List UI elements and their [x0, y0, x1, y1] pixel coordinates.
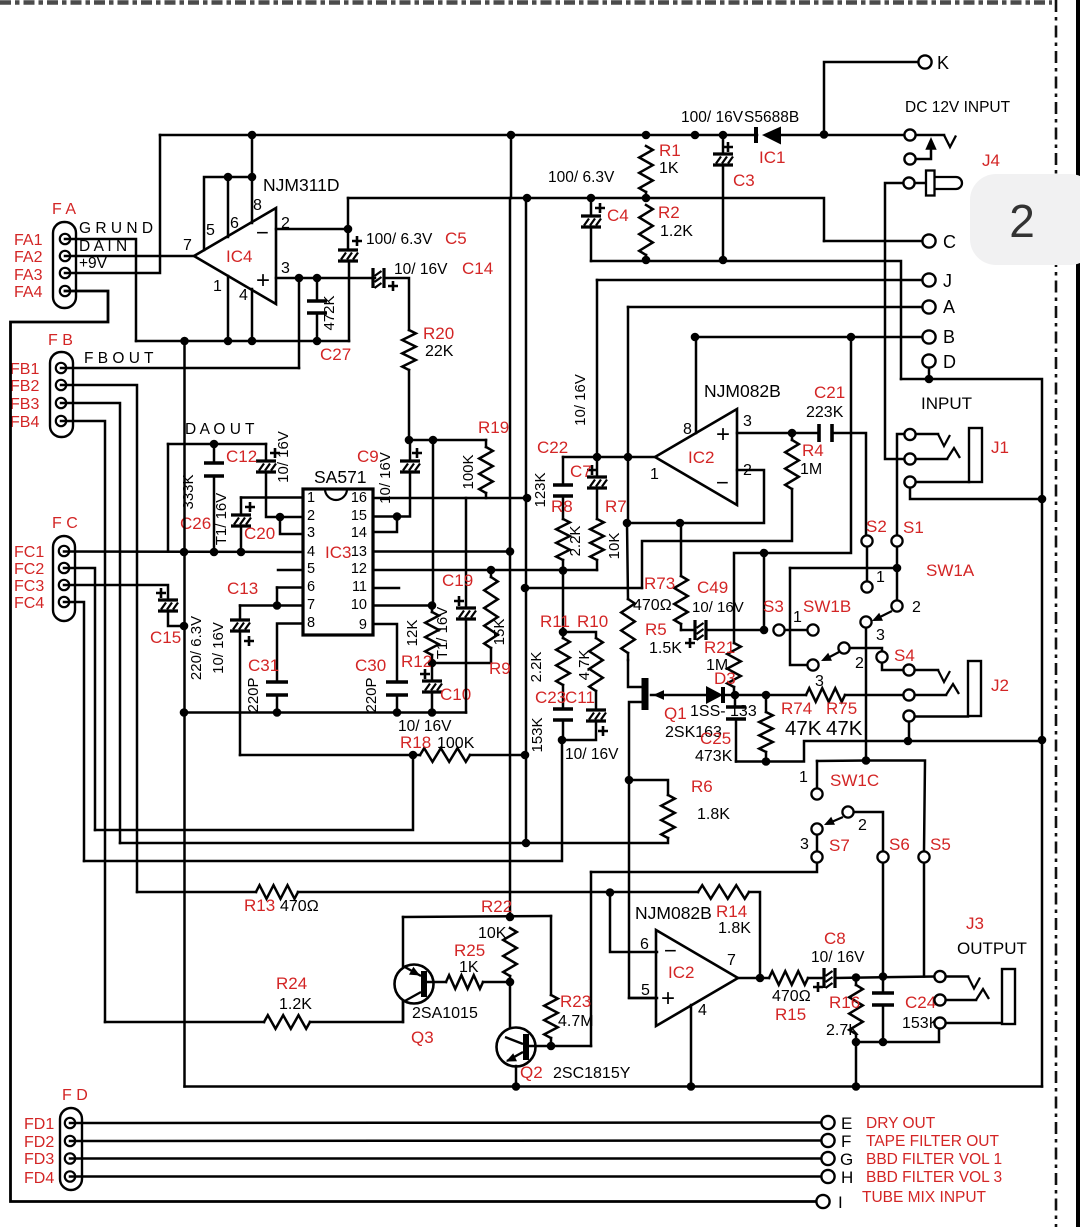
wire S1 S2 contact line to SW1B pole3 — [790, 567, 897, 570]
svg-text:1: 1 — [793, 609, 802, 626]
terminal I TUBE MIX INPUT — [816, 1195, 829, 1208]
wire R24 line — [105, 1021, 264, 1024]
svg-text:R4: R4 — [802, 441, 824, 460]
svg-text:R16: R16 — [829, 993, 860, 1012]
resistor R15 470ohm — [769, 971, 808, 985]
svg-text:C23: C23 — [535, 688, 566, 707]
wire IC2 pin3 to C21 — [737, 432, 817, 435]
wire R2 C3 C4 ground line — [591, 261, 901, 379]
svg-text:F B O U T: F B O U T — [84, 350, 154, 367]
svg-text:IC2: IC2 — [668, 963, 694, 982]
svg-text:8: 8 — [253, 197, 262, 214]
wire FD4 to terminal H — [70, 1175, 822, 1178]
op-amp IC2 NJM082B top — [655, 409, 737, 505]
op-amp IC2 NJM082B bottom — [656, 930, 738, 1026]
wire IC4 pin3 line — [276, 277, 375, 280]
svg-text:10/ 16V: 10/ 16V — [394, 261, 448, 278]
svg-text:333K: 333K — [180, 474, 197, 509]
svg-text:DC 12V INPUT: DC 12V INPUT — [905, 99, 1011, 116]
svg-text:1M: 1M — [800, 461, 822, 478]
wire trunk x526 from 12V line — [525, 198, 528, 843]
svg-text:NJM082B: NJM082B — [635, 903, 712, 923]
wire SA571 pin16 line — [373, 497, 527, 500]
svg-text:12K: 12K — [404, 620, 421, 647]
resistor R23 4.7M — [550, 916, 553, 995]
terminal A — [628, 306, 922, 309]
wire FD2 to terminal F — [70, 1139, 822, 1142]
svg-text:G R U N D: G R U N D — [79, 220, 153, 237]
svg-text:470Ω: 470Ω — [633, 597, 672, 614]
right fold dash-dot line — [1055, 0, 1058, 1227]
svg-text:8: 8 — [307, 615, 315, 631]
terminal J — [597, 279, 922, 282]
svg-text:SA571: SA571 — [314, 467, 367, 487]
svg-text:100/ 16V: 100/ 16V — [681, 109, 744, 126]
svg-text:C19: C19 — [442, 571, 473, 590]
svg-text:Q1: Q1 — [664, 704, 687, 723]
wire Q2 base to riser — [526, 1045, 591, 1048]
svg-text:7: 7 — [307, 597, 315, 613]
svg-text:4.7K: 4.7K — [576, 650, 593, 681]
wire A line descender — [627, 307, 630, 457]
svg-text:2.2K: 2.2K — [567, 526, 584, 557]
resistor R9 15K — [490, 570, 493, 577]
wire R13 line — [137, 891, 256, 894]
svg-text:S3: S3 — [763, 597, 784, 616]
capacitor C5 100/6.3V — [347, 229, 350, 250]
resistor R1 1K — [639, 146, 653, 192]
terminal C — [824, 240, 922, 243]
wire top supply bus — [160, 134, 757, 137]
svg-text:15: 15 — [351, 508, 367, 524]
capacitor C13 220/6.3V 10/16V — [240, 604, 303, 607]
svg-text:F B: F B — [48, 332, 73, 349]
svg-text:470Ω: 470Ω — [280, 898, 319, 915]
svg-text:INPUT: INPUT — [921, 394, 972, 413]
resistor R21 1M — [727, 643, 741, 687]
svg-text:R8: R8 — [551, 497, 573, 516]
wire FC1 to SA571 pin4 — [64, 550, 303, 553]
resistor R22 10K — [503, 928, 517, 976]
wire S7 line to Q2 base riser — [590, 872, 593, 1046]
terminal H BBD FILTER VOL 3 — [821, 1170, 834, 1183]
svg-text:C8: C8 — [824, 929, 846, 948]
svg-text:+: + — [256, 267, 270, 294]
svg-text:R2: R2 — [658, 203, 680, 222]
svg-text:C15: C15 — [150, 628, 181, 647]
wire SW1A pole3 descender — [865, 628, 868, 761]
svg-text:8: 8 — [683, 421, 692, 438]
wire bottom ground bus — [185, 1085, 1043, 1088]
svg-text:D3: D3 — [714, 669, 736, 688]
wire FD1 to terminal E — [70, 1121, 822, 1124]
svg-text:−: − — [256, 220, 269, 245]
svg-text:F C: F C — [52, 515, 78, 532]
svg-text:100/ 6.3V: 100/ 6.3V — [366, 231, 433, 248]
svg-text:220P: 220P — [245, 677, 262, 712]
right solid border — [1076, 0, 1080, 1227]
connector FB — [50, 352, 73, 437]
top perforation dash line — [0, 0, 1052, 5]
svg-text:D: D — [943, 352, 956, 372]
connector FA — [53, 222, 76, 308]
capacitor C27 472K — [316, 278, 319, 301]
svg-text:R10: R10 — [577, 612, 608, 631]
svg-text:IC3: IC3 — [325, 543, 351, 562]
svg-text:C25: C25 — [700, 729, 731, 748]
capacitor C30 220P — [386, 680, 408, 684]
svg-text:472K: 472K — [321, 295, 338, 330]
svg-text:NJM082B: NJM082B — [704, 381, 781, 401]
wire x433 riser to R12 — [432, 440, 435, 606]
svg-text:12: 12 — [351, 561, 367, 577]
wire J2 sleeve drop — [908, 722, 911, 741]
svg-text:10: 10 — [351, 597, 367, 613]
capacitor C4 100/6.3V — [590, 198, 593, 216]
capacitor C24 153K — [882, 977, 885, 994]
svg-text:FD4: FD4 — [24, 1170, 54, 1187]
svg-text:10K: 10K — [606, 533, 623, 560]
svg-text:15K: 15K — [491, 619, 508, 646]
plug J4 — [903, 177, 914, 188]
svg-text:4: 4 — [698, 1002, 707, 1019]
wire J line descender to IC2 pin1 — [596, 280, 599, 457]
svg-text:D A I N: D A I N — [79, 238, 127, 255]
svg-text:2: 2 — [912, 599, 921, 616]
svg-text:5: 5 — [641, 982, 650, 999]
wire trunk x510 from top bus to Q2 collector — [510, 135, 513, 198]
svg-text:C5: C5 — [445, 229, 467, 248]
svg-text:100/ 6.3V: 100/ 6.3V — [548, 169, 615, 186]
capacitor C3 100/16V — [722, 135, 725, 154]
svg-text:1.8K: 1.8K — [697, 806, 730, 823]
wire IC4 ground bus — [136, 340, 349, 343]
svg-text:220P: 220P — [363, 677, 380, 712]
svg-text:S5: S5 — [930, 835, 951, 854]
svg-text:IC2: IC2 — [688, 448, 714, 467]
wire SW1B contact2 to S4 — [850, 648, 882, 651]
wire FA4 to bottom frame rail — [11, 291, 818, 1202]
terminal F TAPE FILTER OUT — [821, 1134, 834, 1147]
switch S4 — [876, 651, 887, 662]
svg-text:−: − — [664, 938, 677, 963]
capacitor C26 333K — [213, 444, 216, 463]
svg-text:IC1: IC1 — [759, 148, 785, 167]
svg-text:NJM311D: NJM311D — [263, 175, 340, 195]
wire R20 R19 junction line — [409, 439, 486, 442]
svg-text:1.2K: 1.2K — [279, 996, 312, 1013]
terminal E DRY OUT — [821, 1116, 834, 1129]
resistor R20 22K — [402, 330, 416, 370]
svg-text:C20: C20 — [244, 524, 275, 543]
svg-text:473K: 473K — [695, 748, 733, 765]
svg-text:C3: C3 — [733, 171, 755, 190]
svg-text:J3: J3 — [966, 914, 984, 933]
wire C25 R74 ground return to J2 sleeve — [736, 741, 1042, 762]
capacitor C11 10/16V — [586, 708, 606, 711]
svg-text:I: I — [838, 1193, 843, 1212]
svg-text:R12: R12 — [401, 652, 432, 671]
svg-text:2: 2 — [858, 817, 867, 834]
svg-text:C24: C24 — [905, 993, 936, 1012]
svg-text:47K: 47K — [826, 717, 863, 740]
svg-text:11: 11 — [352, 579, 367, 595]
resistor R12 12K — [431, 606, 434, 613]
svg-text:R15: R15 — [775, 1005, 806, 1024]
transistor Q2 2SC1815Y — [497, 1028, 536, 1067]
svg-text:S4: S4 — [894, 646, 915, 665]
capacitor C14 10/16V — [371, 268, 374, 288]
svg-text:5: 5 — [307, 561, 315, 577]
resistor R24 1.2K — [264, 1015, 310, 1029]
wire B net to R21 riser — [734, 337, 851, 643]
transistor Q3 2SA1015 — [395, 965, 434, 1004]
wire vertical x184 DAOUT rail — [183, 341, 186, 1087]
capacitor C22 123K — [562, 457, 565, 485]
svg-text:B: B — [943, 327, 955, 347]
svg-text:R73: R73 — [644, 574, 675, 593]
capacitor C19 T1/16V — [465, 498, 468, 608]
svg-text:FD3: FD3 — [24, 1151, 54, 1168]
svg-text:FB3: FB3 — [10, 396, 39, 413]
svg-text:C11: C11 — [565, 688, 595, 707]
resistor R2 1.2K — [639, 205, 653, 255]
wire IC4 pins 5 6 8 top strap — [204, 177, 252, 250]
svg-text:10/ 16V: 10/ 16V — [811, 949, 865, 966]
wire R18 branch to FC2 line — [95, 755, 413, 830]
svg-text:R22: R22 — [481, 897, 512, 916]
wire FC2 descender — [64, 568, 95, 830]
terminal K — [824, 62, 918, 134]
svg-text:S5688B: S5688B — [744, 109, 799, 126]
svg-text:J1: J1 — [991, 438, 1009, 457]
capacitor C10 10/16V — [431, 663, 434, 681]
wire R16 ground drop — [855, 1042, 858, 1087]
svg-text:10K: 10K — [478, 925, 507, 942]
wire C24 ground to J3 sleeve — [856, 1029, 939, 1042]
wire FA2 DAIN to IC4 pin7 — [65, 255, 194, 258]
wire FB1 FBOUT line — [61, 367, 299, 370]
svg-text:S7: S7 — [829, 836, 850, 855]
wire SA571 pin11 stub — [373, 587, 399, 590]
wire pin3 drop to FBOUT line — [298, 278, 301, 368]
connector FC — [53, 536, 75, 621]
resistor R25 1K — [427, 981, 446, 984]
svg-text:4: 4 — [307, 544, 315, 560]
svg-text:C49: C49 — [697, 578, 728, 597]
svg-text:2SC1815Y: 2SC1815Y — [553, 1065, 631, 1082]
svg-text:R6: R6 — [691, 777, 713, 796]
terminal V and DC jack J4 — [904, 129, 915, 140]
jack J2 — [903, 664, 914, 675]
svg-text:IC4: IC4 — [226, 247, 252, 266]
svg-text:FA3: FA3 — [14, 267, 43, 284]
svg-text:T1/ 16V: T1/ 16V — [213, 493, 230, 546]
resistor R7 10K — [590, 519, 604, 560]
switch S7 — [811, 851, 822, 862]
svg-text:A: A — [943, 297, 955, 317]
resistor R10 4.7K — [563, 632, 596, 638]
svg-text:6: 6 — [640, 936, 649, 953]
svg-text:FC4: FC4 — [14, 595, 44, 612]
IC SA571 IC3 — [303, 489, 373, 635]
op-amp IC4 NJM311D — [194, 208, 276, 304]
svg-text:1.5K: 1.5K — [649, 640, 682, 657]
svg-text:10/ 16V: 10/ 16V — [572, 374, 589, 426]
svg-text:OUTPUT: OUTPUT — [957, 939, 1027, 958]
wire x526 branch to R4 return — [525, 587, 642, 590]
svg-text:R1: R1 — [659, 141, 681, 160]
svg-text:C12: C12 — [226, 447, 257, 466]
capacitor C23 153K — [553, 707, 573, 711]
svg-text:FC1: FC1 — [14, 544, 44, 561]
svg-text:BBD FILTER VOL 3: BBD FILTER VOL 3 — [866, 1169, 1002, 1186]
svg-text:1K: 1K — [659, 160, 679, 177]
resistor R4 1M — [791, 433, 794, 440]
resistor R14 1.8K — [698, 885, 749, 899]
wire S5 riser — [866, 761, 925, 852]
svg-text:SW1A: SW1A — [926, 561, 975, 580]
resistor R18 100K with line — [240, 754, 420, 757]
capacitor C49 10/16V — [681, 629, 695, 632]
svg-text:3: 3 — [307, 525, 315, 541]
terminal D — [922, 354, 935, 367]
svg-text:FB1: FB1 — [10, 361, 39, 378]
svg-text:5: 5 — [206, 222, 215, 239]
wire IC2 pin5 line — [629, 997, 657, 1000]
wire 12V line C4 R1 R2 rail — [347, 198, 350, 229]
svg-text:H: H — [841, 1168, 853, 1187]
svg-text:R74: R74 — [781, 699, 812, 718]
capacitor C7 10/16V — [596, 457, 599, 477]
svg-text:J4: J4 — [982, 151, 1000, 170]
svg-text:1: 1 — [876, 569, 885, 586]
svg-text:1.2K: 1.2K — [660, 223, 693, 240]
svg-text:10/ 16V: 10/ 16V — [565, 746, 619, 763]
svg-text:22K: 22K — [425, 343, 454, 360]
svg-text:4.7M: 4.7M — [558, 1013, 594, 1030]
wire FA3 +9V to top bus riser — [65, 135, 160, 273]
svg-text:1: 1 — [213, 278, 222, 295]
svg-text:C30: C30 — [355, 656, 386, 675]
svg-text:14: 14 — [351, 525, 367, 541]
wire J1 sleeve to rail — [910, 488, 1042, 499]
wire SA571 pin2 pin3 strap — [280, 516, 303, 519]
svg-text:2SA1015: 2SA1015 — [412, 1005, 478, 1022]
wire IC4 pin2 line — [276, 228, 348, 231]
svg-text:R5: R5 — [645, 620, 667, 639]
svg-text:FB4: FB4 — [10, 414, 39, 431]
svg-text:100K: 100K — [437, 735, 475, 752]
wire IC4 pins 1 4 to ground bus — [227, 276, 230, 341]
resistor R5 1.5K — [627, 523, 628, 599]
wire C14 to R20 — [384, 278, 409, 330]
svg-text:13: 13 — [351, 544, 367, 560]
svg-text:F: F — [841, 1132, 851, 1151]
connector FD — [60, 1108, 82, 1190]
svg-text:10/ 16V: 10/ 16V — [692, 599, 744, 616]
svg-text:R24: R24 — [276, 974, 307, 993]
wire FD3 to terminal G — [70, 1157, 822, 1160]
svg-text:153K: 153K — [529, 717, 546, 752]
wire FC3 to C15 — [64, 585, 168, 600]
capacitor C15 — [158, 598, 178, 601]
svg-text:3: 3 — [743, 413, 752, 430]
wire FB2 descender to R13 — [61, 385, 137, 892]
wire IC2 pin8 riser to B line — [695, 337, 698, 433]
capacitor C31 220P — [277, 624, 303, 683]
svg-text:C27: C27 — [320, 345, 351, 364]
svg-text:1: 1 — [650, 466, 659, 483]
wire SA571 pin10 line — [373, 604, 432, 607]
svg-text:FB2: FB2 — [10, 378, 39, 395]
svg-text:3: 3 — [281, 260, 290, 277]
svg-text:R23: R23 — [560, 992, 591, 1011]
svg-text:C14: C14 — [462, 259, 493, 278]
svg-text:F A: F A — [52, 201, 76, 218]
wire Q1 source descender to IC2 pin5 — [629, 780, 657, 998]
svg-text:220/ 6.3V: 220/ 6.3V — [188, 616, 205, 680]
wire SA571 pin6 to pin7 strap — [277, 586, 303, 589]
transistor Q1 2SK163 — [628, 660, 643, 687]
svg-text:T1/ 16V: T1/ 16V — [434, 607, 451, 660]
svg-text:2.2K: 2.2K — [528, 652, 545, 683]
capacitor C8 10/16V — [808, 977, 824, 980]
svg-text:10/ 16V: 10/ 16V — [210, 622, 227, 674]
svg-text:J: J — [943, 271, 952, 291]
svg-text:10/ 16V: 10/ 16V — [275, 431, 292, 483]
svg-text:R20: R20 — [423, 324, 454, 343]
svg-text:47K: 47K — [785, 717, 822, 740]
svg-text:1SS- 133: 1SS- 133 — [690, 703, 757, 720]
wire IC2 pin2 feedback loop — [627, 470, 764, 523]
svg-text:3: 3 — [815, 673, 824, 690]
svg-text:FD1: FD1 — [24, 1116, 54, 1133]
wire ground to INPUT jack rail — [901, 379, 1042, 1087]
wire D3 node to R74 R75 — [735, 694, 806, 697]
wire FC4 descender — [64, 602, 84, 861]
svg-text:1: 1 — [307, 490, 315, 506]
svg-text:C: C — [943, 232, 956, 252]
wire S3 branch riser — [763, 553, 766, 630]
svg-text:R19: R19 — [478, 418, 509, 437]
svg-text:1.8K: 1.8K — [718, 920, 751, 937]
wire C21 to S2 — [834, 433, 866, 536]
svg-text:R25: R25 — [454, 941, 485, 960]
svg-text:470Ω: 470Ω — [772, 988, 811, 1005]
resistor R8 2.2K — [556, 519, 570, 560]
resistor R6 1.8K — [629, 780, 668, 795]
svg-text:FA1: FA1 — [14, 232, 43, 249]
svg-text:100K: 100K — [460, 454, 477, 489]
svg-text:C9: C9 — [357, 447, 379, 466]
svg-text:C21: C21 — [814, 383, 845, 402]
svg-text:4: 4 — [239, 287, 248, 304]
svg-text:123K: 123K — [532, 472, 549, 507]
svg-text:1K: 1K — [459, 959, 479, 976]
svg-text:9: 9 — [359, 617, 367, 633]
svg-text:R9: R9 — [489, 659, 511, 678]
svg-text:2: 2 — [855, 655, 864, 672]
svg-text:−: − — [716, 470, 729, 495]
resistor R74 47K — [765, 695, 768, 712]
wire J4 to J1 ring — [885, 183, 904, 459]
svg-text:S6: S6 — [889, 835, 910, 854]
resistor R73 470ohm — [680, 523, 683, 576]
wire IC2 pin6 from R13 line — [610, 893, 657, 953]
svg-text:3: 3 — [800, 836, 809, 853]
svg-text:2: 2 — [1009, 195, 1035, 247]
